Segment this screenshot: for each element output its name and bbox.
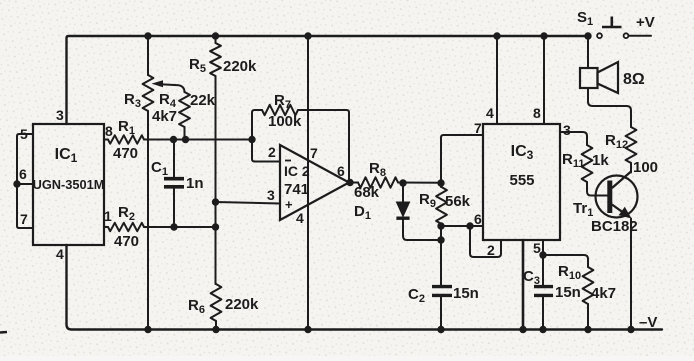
diode D1 cathode bar xyxy=(396,216,409,219)
junction C1 bottom xyxy=(170,223,177,230)
switch S1 left contact xyxy=(597,33,602,38)
wire emitter to 0V rail xyxy=(630,219,632,330)
junction R3 bottom on 0V rail xyxy=(144,326,151,333)
svg-text:220k: 220k xyxy=(225,296,259,313)
junction S1 speaker on +V rail xyxy=(584,32,591,39)
svg-text:741: 741 xyxy=(284,181,309,198)
resistor R10 zigzag xyxy=(583,267,594,304)
diode D1 triangle xyxy=(396,202,409,217)
wire R8 to D1 node xyxy=(398,182,441,184)
wire 555 pin3 to R11 xyxy=(560,132,587,145)
junction R5 top on +V rail xyxy=(212,32,219,39)
svg-text:3: 3 xyxy=(563,122,571,138)
transistor Q1 circle xyxy=(596,176,638,218)
wire node to pin3 xyxy=(216,202,281,204)
svg-text:8: 8 xyxy=(533,105,541,121)
node divider R2 C1 xyxy=(212,223,219,230)
wire R9 top lead xyxy=(440,183,442,187)
svg-text:220k: 220k xyxy=(223,58,257,75)
svg-text:4k7: 4k7 xyxy=(152,108,177,125)
wiper arrow line from R4 to R3 xyxy=(160,84,185,92)
speaker LS1 cone xyxy=(598,62,619,93)
wire R4 bottom lead xyxy=(184,127,186,140)
wire C1 bottom lead xyxy=(173,187,175,227)
wire op-amp pin7 pin4 supply line xyxy=(307,36,309,330)
wire pin5 node to R10 xyxy=(543,255,588,267)
wire IC1 pin6 xyxy=(17,183,33,185)
svg-text:7: 7 xyxy=(474,120,482,136)
resistor R6 zigzag xyxy=(211,284,222,321)
wire R6 bottom lead xyxy=(215,321,217,330)
junction R9 bottom pin6 node xyxy=(437,222,444,229)
resistor R12 zigzag xyxy=(626,127,637,163)
junction IC1 pins 5-6-7 xyxy=(13,180,20,187)
transistor Q1 collector stroke xyxy=(612,172,631,189)
wire 555 pin6 xyxy=(441,225,483,227)
junction C2 bottom on 0V rail xyxy=(437,326,444,333)
feedback loop with R7 xyxy=(252,110,262,140)
resistor R11 zigzag xyxy=(582,145,593,182)
svg-text:100k: 100k xyxy=(268,113,302,130)
junction C3 bottom on 0V rail xyxy=(539,326,546,333)
wire IC1 pin8 to R1 xyxy=(104,139,108,141)
wiper arrowhead xyxy=(152,80,164,87)
wire R3 top lead xyxy=(147,36,149,75)
junction op-amp inverting input node xyxy=(248,136,255,143)
svg-text:+: + xyxy=(285,197,293,212)
wire R3 bottom lead to 0V rail xyxy=(147,111,149,330)
wire output to R8 xyxy=(349,182,358,184)
wire IC1 pin3 to +V rail and top supply rail xyxy=(67,36,589,124)
transistor Q1 emitter arrowhead xyxy=(619,207,632,219)
wire to op-amp pin2 xyxy=(252,140,280,162)
svg-text:68k: 68k xyxy=(354,184,380,201)
capacitor C3 plates xyxy=(534,287,553,296)
wire IC1 pin4 to 0V rail and bottom supply rail xyxy=(67,245,663,330)
wire 555 pin2 loop to pin6 xyxy=(470,226,501,257)
junction R8 wire to R9 top xyxy=(437,179,444,186)
junction C1 top xyxy=(170,136,177,143)
wire R12 to collector xyxy=(630,163,632,173)
wire divider vertical xyxy=(215,76,217,284)
wire R9 bottom lead xyxy=(441,224,443,226)
wire 555 pin4 to +V rail xyxy=(496,36,498,124)
junction 555 pin5 node xyxy=(539,251,546,258)
transistor Q1 emitter stroke xyxy=(612,205,629,217)
junction emitter on 0V rail xyxy=(627,326,634,333)
svg-text:7: 7 xyxy=(310,145,318,161)
resistor R8 zigzag xyxy=(358,177,398,187)
resistor R5 zigzag xyxy=(210,43,221,76)
resistor R7 zigzag xyxy=(262,105,298,115)
wire D1 cathode to R9 bottom node xyxy=(403,218,441,240)
wire R5 top lead xyxy=(215,36,217,43)
svg-text:4: 4 xyxy=(56,246,64,262)
svg-text:470: 470 xyxy=(113,145,138,162)
resistor R1 zigzag xyxy=(108,135,144,143)
resistor R2 zigzag xyxy=(108,223,144,231)
junction op-amp pin7 on +V rail xyxy=(304,32,311,39)
resistor R9 zigzag xyxy=(436,187,447,224)
wire C2 bottom lead xyxy=(440,296,442,330)
resistor R3 zigzag xyxy=(143,75,154,111)
feedback loop right side xyxy=(298,110,349,182)
junction D1 to timing node xyxy=(437,236,444,243)
node divider to op-amp pin3 xyxy=(212,198,219,205)
junction R4 to input node xyxy=(182,136,189,143)
capacitor C1 plates xyxy=(164,179,184,187)
svg-text:555: 555 xyxy=(509,172,534,189)
junction op-amp output xyxy=(346,179,353,186)
wire 555 pin5 xyxy=(542,240,544,255)
junction R6 bottom on 0V rail xyxy=(212,326,219,333)
switch S1 actuator bar xyxy=(602,17,622,28)
svg-text:15n: 15n xyxy=(555,284,581,301)
junction op-amp pin4 on 0V rail xyxy=(304,326,311,333)
wire R1 to op-amp input node xyxy=(144,139,252,141)
svg-text:3: 3 xyxy=(267,187,275,203)
svg-text:4k7: 4k7 xyxy=(591,285,616,302)
svg-text:BC182: BC182 xyxy=(591,218,638,235)
wire C3 bottom lead xyxy=(542,296,544,330)
junction 555 pin8 on +V rail xyxy=(540,32,547,39)
wire IC1 pin1 to R2 xyxy=(104,226,108,228)
svg-text:2: 2 xyxy=(268,144,276,160)
wire D1 anode lead xyxy=(402,183,404,202)
svg-text:4: 4 xyxy=(486,105,494,121)
svg-text:100: 100 xyxy=(633,159,658,176)
wire R10 bottom lead xyxy=(587,304,589,330)
junction 555 pin1 on 0V rail xyxy=(519,326,526,333)
svg-text:5: 5 xyxy=(533,240,541,256)
capacitor C2 plates xyxy=(432,287,452,296)
svg-text:2: 2 xyxy=(487,242,495,258)
svg-text:56k: 56k xyxy=(445,193,471,210)
op-amp U1 741 triangle xyxy=(280,145,349,220)
wire IC1 pin5 xyxy=(17,134,33,228)
junction R10 bottom on 0V rail xyxy=(584,326,591,333)
scan artifact tick left edge xyxy=(0,331,7,334)
svg-text:3: 3 xyxy=(56,107,64,123)
svg-text:UGN-3501M: UGN-3501M xyxy=(33,177,105,192)
svg-text:1k: 1k xyxy=(592,152,609,169)
svg-text:6: 6 xyxy=(337,163,345,179)
wire 555 pin8 to +V rail xyxy=(543,36,545,124)
speaker LS1 box xyxy=(580,68,598,88)
wire S1 to +V terminal xyxy=(629,35,652,37)
junction pin2 to pin6 node xyxy=(466,222,473,229)
wire C3 top lead xyxy=(542,255,544,285)
wire speaker to R12 xyxy=(588,88,631,127)
svg-text:5: 5 xyxy=(20,126,28,142)
junction 555 pin4 on +V rail xyxy=(493,32,500,39)
switch S1 right contact xyxy=(624,33,629,38)
svg-text:+V: +V xyxy=(636,14,655,31)
junction R3 top on +V rail xyxy=(144,32,151,39)
wire C1 top lead xyxy=(173,140,175,178)
svg-text:7: 7 xyxy=(20,211,28,227)
svg-text:8: 8 xyxy=(105,123,113,139)
svg-text:6: 6 xyxy=(19,166,27,182)
svg-text:22k: 22k xyxy=(190,92,216,109)
transistor Q1 base bar xyxy=(607,181,612,214)
IC3 555 body xyxy=(483,124,560,240)
svg-text:4: 4 xyxy=(296,210,304,226)
wire R11 to base xyxy=(587,182,608,196)
minus bar over IC2 xyxy=(285,160,291,162)
svg-text:470: 470 xyxy=(114,233,139,250)
svg-text:–V: –V xyxy=(639,314,657,331)
wire 555 pin1 to 0V rail xyxy=(522,240,525,330)
wire R2 to divider node xyxy=(144,226,216,228)
svg-text:1: 1 xyxy=(104,208,112,224)
resistor R4 zigzag xyxy=(179,92,190,127)
svg-text:15n: 15n xyxy=(453,285,479,302)
svg-text:1n: 1n xyxy=(186,175,204,192)
wire rail to speaker xyxy=(587,36,589,68)
wire 555 pin7 to R9 line xyxy=(441,135,483,183)
IC1 UGN-3501M body xyxy=(33,124,104,245)
wire pin6 node down to C2 xyxy=(440,226,442,285)
svg-text:8Ω: 8Ω xyxy=(623,71,645,88)
svg-text:IC 2: IC 2 xyxy=(284,163,310,179)
junction R8 D1 xyxy=(399,179,406,186)
svg-text:6: 6 xyxy=(474,211,482,227)
